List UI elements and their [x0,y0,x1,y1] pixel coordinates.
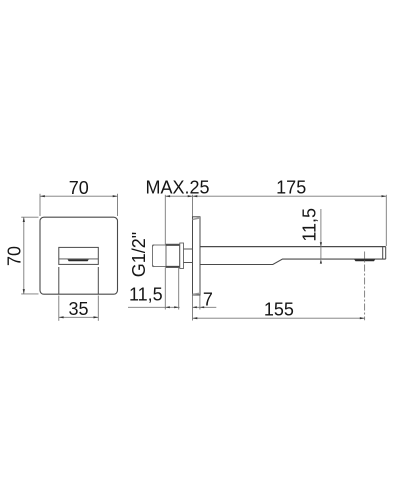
svg-text:35: 35 [68,299,88,319]
svg-text:7: 7 [203,289,213,309]
svg-text:175: 175 [276,178,306,198]
wall plate (front view, 70x70 square) [40,217,118,294]
spout front lower edge line [59,258,99,260]
spout lower body sides (front view) [58,267,60,294]
spout upper box (front view) [59,247,99,264]
outlet centerline (dash-dot) [364,252,366,321]
svg-text:11,5: 11,5 [299,208,319,242]
svg-text:155: 155 [264,300,294,320]
dimension 7 (bottom) [193,306,217,308]
neck between flange and plate [184,248,193,250]
spout tube (side view) [200,246,386,248]
dimension 70 (top, front view) [40,194,118,216]
svg-text:MAX.25: MAX.25 [145,178,209,198]
dimension 11,5 (right, vertical) [320,209,322,259]
top dimension chain line (MAX.25 / 175) [165,195,386,197]
spout underside profile [200,259,386,264]
dimension 70 (left, front view) [21,217,38,294]
svg-text:70: 70 [69,178,89,198]
dimension 11,5 (bottom left) [128,306,180,308]
svg-text:11,5: 11,5 [129,285,163,305]
svg-text:70: 70 [5,246,25,266]
wall plate (side view bar) [193,217,201,295]
plate bottom cap shading [193,293,201,296]
water outlet (side view, underside) [354,259,375,261]
extension line at wall limit x=165.3 [164,195,166,245]
fitting body (hex section) [166,244,180,267]
water outlet slot (front view) [68,259,89,261]
plate top cap shading [193,217,201,220]
svg-text:G1/2": G1/2" [129,232,149,277]
extension line at plate front face x=199.9 [199,295,201,310]
dimension 35 (bottom, front view) [59,296,99,321]
dimension 155 (bottom) [193,317,365,319]
spout tip end cap [382,247,384,259]
G1/2 threaded pipe (thin outline) [152,245,166,267]
extension line at plate back face x=192.5 [192,195,194,217]
flange ring [180,243,184,269]
extension line at spout tip x=386.3 [385,195,387,246]
